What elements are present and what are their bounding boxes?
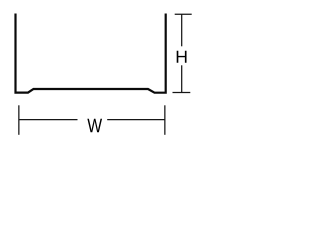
- channel profile outline: [16, 13, 166, 92]
- W dimension line right segment: [107, 119, 165, 121]
- H dimension top tick: [175, 13, 192, 15]
- W dimension line left segment: [19, 119, 78, 121]
- W dimension right tick: [164, 105, 166, 135]
- H dimension bottom tick: [173, 92, 191, 94]
- H dimension line lower segment: [181, 65, 183, 92]
- W dimension left tick: [18, 105, 20, 135]
- H dimension line upper segment: [181, 14, 183, 46]
- label H: [177, 51, 187, 63]
- label W: [87, 119, 102, 132]
